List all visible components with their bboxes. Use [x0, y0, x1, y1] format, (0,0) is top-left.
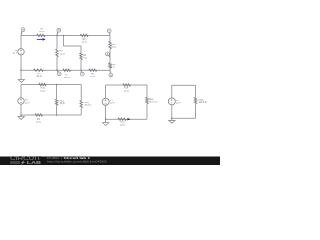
svg-text:10 Ω: 10 Ω	[40, 90, 45, 92]
svg-text:38.97 Ω: 38.97 Ω	[149, 102, 157, 104]
svg-text:2 Ω: 2 Ω	[111, 67, 115, 69]
svg-text:10 Ω: 10 Ω	[120, 124, 125, 126]
svg-text:10 Ω: 10 Ω	[37, 76, 42, 78]
svg-text:10 V: 10 V	[25, 102, 30, 104]
svg-text:10 Ω: 10 Ω	[60, 53, 65, 55]
svg-text:10 Ω: 10 Ω	[36, 122, 41, 124]
svg-text:LAB: LAB	[27, 160, 41, 165]
svg-text:10 Ω: 10 Ω	[60, 103, 65, 105]
svg-text:10 V: 10 V	[110, 103, 115, 105]
svg-text:10 V: 10 V	[176, 103, 181, 105]
svg-text:10 Ω: 10 Ω	[124, 90, 129, 92]
svg-text:10 Ω: 10 Ω	[39, 31, 44, 33]
svg-text:10 V: 10 V	[12, 53, 17, 55]
svg-text:4 Ω: 4 Ω	[83, 58, 87, 60]
svg-text:http://circuitlab.com/c6bb1ec0: http://circuitlab.com/c6bb1ec04562/	[47, 160, 107, 164]
svg-text:110.8 Ω: 110.8 Ω	[199, 102, 207, 104]
svg-text:10 Ω: 10 Ω	[111, 47, 116, 49]
svg-text:10 Ω: 10 Ω	[82, 41, 87, 43]
svg-text:100 Ω: 100 Ω	[63, 77, 70, 79]
svg-text:38.9 Ω: 38.9 Ω	[84, 105, 91, 107]
svg-text:10 Ω: 10 Ω	[90, 76, 95, 78]
svg-text:Public / Circuit lab 1: Public / Circuit lab 1	[47, 156, 91, 160]
